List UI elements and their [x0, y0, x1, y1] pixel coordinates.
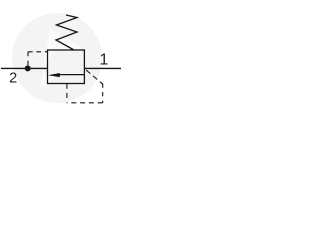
pilot dashed vertical	[27, 52, 29, 66]
drain dashed right vertical	[102, 83, 104, 102]
arrow shaft	[58, 74, 84, 76]
arrowhead	[48, 73, 60, 77]
wire port 2	[1, 67, 48, 69]
drain dashed left vertical	[66, 84, 68, 103]
watermark white patch	[40, 28, 82, 88]
svg-text:1: 1	[99, 51, 108, 68]
wire port 1	[84, 67, 121, 69]
svg-text:2: 2	[9, 71, 17, 87]
valve body	[48, 50, 85, 84]
node junction dot	[25, 65, 31, 71]
spring	[56, 15, 77, 50]
drain dashed bottom horizontal	[67, 102, 103, 104]
pilot dashed horizontal	[28, 51, 48, 53]
drain dashed diagonal	[85, 69, 103, 84]
watermark circle	[12, 13, 102, 103]
